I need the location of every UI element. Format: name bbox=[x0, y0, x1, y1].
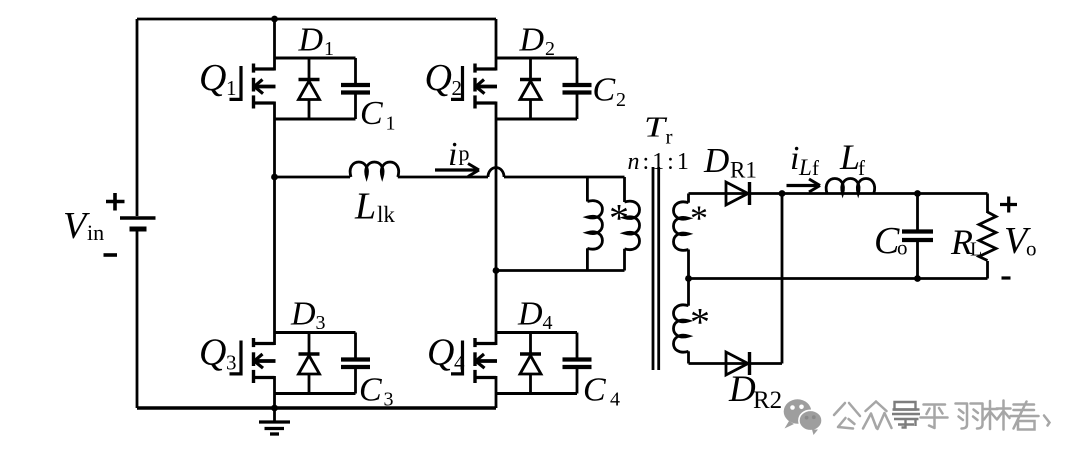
svg-text:*: * bbox=[609, 196, 629, 241]
svg-text:o: o bbox=[1026, 237, 1037, 261]
svg-text:D: D bbox=[290, 296, 316, 333]
svg-text:C: C bbox=[359, 372, 382, 409]
svg-text:i: i bbox=[448, 136, 457, 173]
svg-text:1: 1 bbox=[386, 113, 396, 135]
svg-text:in: in bbox=[87, 220, 104, 245]
svg-text:4: 4 bbox=[610, 389, 620, 411]
svg-text:*: * bbox=[690, 300, 710, 345]
svg-text:4: 4 bbox=[543, 312, 553, 334]
svg-text:T: T bbox=[644, 112, 668, 143]
svg-text:2: 2 bbox=[616, 89, 626, 111]
svg-text:f: f bbox=[812, 156, 819, 180]
svg-text:L: L bbox=[354, 186, 376, 228]
svg-text:C: C bbox=[583, 372, 606, 409]
svg-text:L: L bbox=[798, 155, 812, 180]
svg-text:r: r bbox=[666, 125, 673, 149]
svg-text:D: D bbox=[728, 369, 756, 410]
svg-text:3: 3 bbox=[226, 351, 237, 375]
svg-text:2: 2 bbox=[545, 38, 555, 60]
svg-text:D: D bbox=[298, 22, 324, 59]
svg-text:L: L bbox=[839, 137, 860, 177]
svg-text:3: 3 bbox=[384, 389, 394, 411]
svg-text:L: L bbox=[970, 239, 982, 261]
svg-text:*: * bbox=[690, 198, 708, 238]
svg-text:n:1:1: n:1:1 bbox=[628, 149, 692, 175]
svg-text:lk: lk bbox=[377, 202, 395, 227]
svg-text:1: 1 bbox=[226, 76, 237, 100]
svg-text:f: f bbox=[858, 156, 865, 180]
svg-text:Q: Q bbox=[199, 332, 226, 374]
svg-text:1: 1 bbox=[324, 38, 334, 60]
svg-text:D: D bbox=[703, 141, 729, 180]
svg-text:R1: R1 bbox=[730, 158, 757, 183]
svg-text:Q: Q bbox=[427, 332, 454, 374]
svg-text:Q: Q bbox=[199, 57, 226, 99]
svg-text:D: D bbox=[517, 296, 543, 333]
svg-text:R2: R2 bbox=[753, 387, 782, 414]
svg-text:C: C bbox=[593, 72, 616, 109]
svg-text:3: 3 bbox=[316, 312, 326, 334]
svg-text:Q: Q bbox=[425, 57, 452, 99]
svg-text:2: 2 bbox=[452, 76, 463, 100]
svg-text:V: V bbox=[63, 205, 90, 247]
svg-text:D: D bbox=[519, 22, 545, 59]
svg-text:o: o bbox=[897, 236, 908, 260]
svg-text:C: C bbox=[360, 95, 383, 132]
svg-text:4: 4 bbox=[454, 351, 465, 375]
svg-text:p: p bbox=[459, 141, 470, 166]
